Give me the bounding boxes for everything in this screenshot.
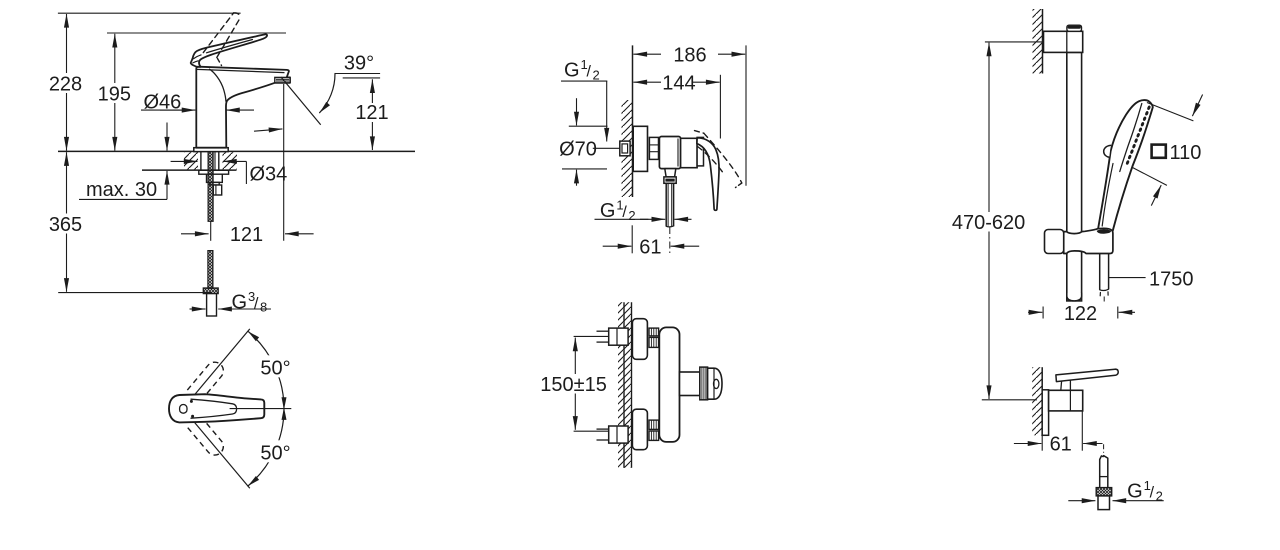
svg-text:228: 228 (49, 73, 82, 95)
svg-text:G: G (1127, 481, 1143, 503)
svg-text:122: 122 (1064, 303, 1097, 325)
svg-text:Ø70: Ø70 (559, 138, 597, 160)
svg-text:110: 110 (1170, 142, 1202, 164)
svg-text:195: 195 (98, 83, 131, 105)
svg-text:/: / (622, 204, 627, 221)
svg-text:/: / (587, 64, 592, 81)
svg-text:2: 2 (628, 208, 635, 223)
svg-text:50°: 50° (260, 357, 290, 379)
svg-text:G: G (600, 200, 616, 222)
svg-text:/: / (254, 296, 259, 313)
svg-text:G: G (232, 292, 248, 314)
svg-text:G: G (564, 60, 580, 82)
svg-text:61: 61 (639, 236, 661, 258)
svg-text:8: 8 (260, 300, 267, 315)
svg-text:39°: 39° (344, 52, 374, 74)
svg-text:121: 121 (230, 224, 263, 246)
svg-text:/: / (1150, 485, 1155, 502)
svg-text:61: 61 (1050, 433, 1072, 455)
svg-text:150±15: 150±15 (540, 374, 607, 396)
svg-text:365: 365 (49, 214, 82, 236)
svg-text:2: 2 (593, 68, 600, 83)
svg-text:50°: 50° (260, 442, 290, 464)
svg-text:470-620: 470-620 (952, 212, 1025, 234)
svg-text:186: 186 (673, 44, 706, 66)
svg-text:max. 30: max. 30 (86, 179, 157, 201)
svg-text:144: 144 (662, 72, 695, 94)
svg-text:Ø34: Ø34 (250, 164, 288, 186)
svg-text:121: 121 (355, 102, 388, 124)
svg-text:1750: 1750 (1149, 268, 1194, 290)
